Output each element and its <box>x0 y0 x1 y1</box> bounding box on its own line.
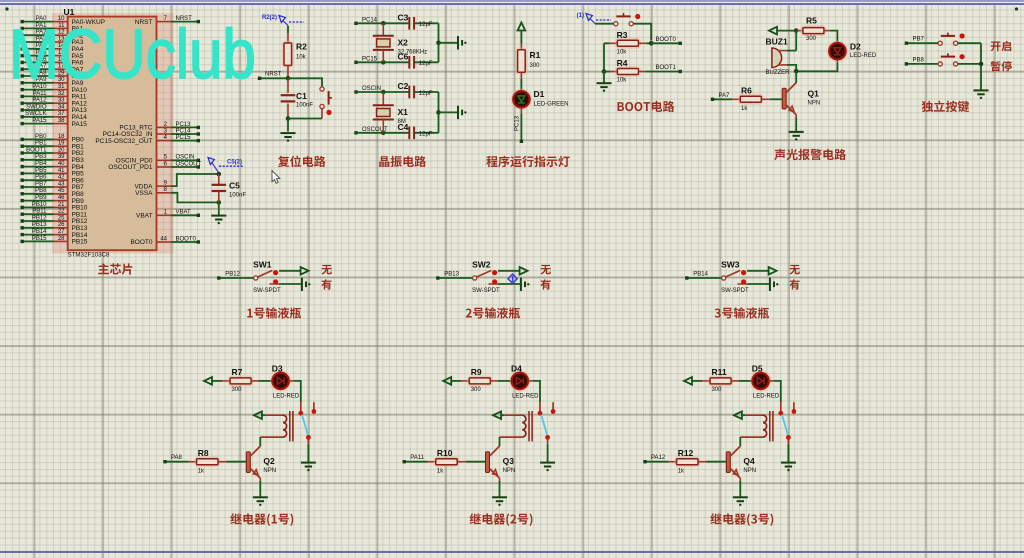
svg-text:LED-GREEN: LED-GREEN <box>534 102 569 108</box>
svg-text:LED-RED: LED-RED <box>273 393 300 399</box>
svg-text:12pF: 12pF <box>419 132 433 138</box>
svg-text:25: 25 <box>58 215 65 221</box>
svg-text:BOOT1: BOOT1 <box>656 65 677 71</box>
svg-text:SWCLK: SWCLK <box>25 111 46 117</box>
svg-text:10k: 10k <box>617 50 628 56</box>
svg-text:44: 44 <box>160 236 167 242</box>
svg-text:R12: R12 <box>678 448 694 458</box>
svg-text:300: 300 <box>530 63 541 69</box>
svg-text:PA12: PA12 <box>651 455 666 461</box>
svg-text:LED-RED: LED-RED <box>512 393 539 399</box>
svg-text:1k: 1k <box>198 469 205 475</box>
svg-text:PB0: PB0 <box>35 134 47 140</box>
svg-text:45: 45 <box>58 188 65 194</box>
svg-text:R10: R10 <box>437 448 453 458</box>
svg-text:37: 37 <box>58 111 65 117</box>
svg-text:300: 300 <box>806 36 817 42</box>
svg-text:38: 38 <box>58 118 65 124</box>
svg-text:PA11: PA11 <box>410 455 424 461</box>
svg-text:VBAT: VBAT <box>136 213 153 220</box>
svg-text:OSCOUT: OSCOUT <box>176 161 202 167</box>
svg-text:300: 300 <box>232 387 243 393</box>
svg-text:PC14: PC14 <box>362 17 378 23</box>
svg-text:PB10: PB10 <box>32 202 47 208</box>
svg-text:PB1: PB1 <box>35 141 47 147</box>
svg-text:10k: 10k <box>296 55 307 61</box>
svg-text:R2(2): R2(2) <box>262 15 277 21</box>
svg-text:20: 20 <box>58 147 65 153</box>
svg-text:1k: 1k <box>678 469 685 475</box>
svg-text:OSCIN: OSCIN <box>176 155 195 161</box>
svg-text:PB7: PB7 <box>913 37 925 43</box>
svg-text:R11: R11 <box>712 367 727 377</box>
svg-text:PB5: PB5 <box>35 168 47 174</box>
svg-text:OSCIN: OSCIN <box>362 86 381 92</box>
svg-text:42: 42 <box>58 175 65 181</box>
svg-text:PC13: PC13 <box>176 122 192 128</box>
svg-text:C2: C2 <box>398 81 409 91</box>
svg-text:PA7: PA7 <box>719 93 731 99</box>
svg-text:PA15: PA15 <box>72 121 88 128</box>
svg-text:PC14: PC14 <box>176 128 192 134</box>
svg-text:C1: C1 <box>296 91 307 101</box>
svg-text:PB11: PB11 <box>32 209 47 215</box>
svg-text:SW-SPDT: SW-SPDT <box>253 288 281 294</box>
svg-text:43: 43 <box>58 181 65 187</box>
svg-text:NPN: NPN <box>503 468 516 474</box>
svg-text:BUZ1: BUZ1 <box>766 37 788 47</box>
svg-text:10k: 10k <box>617 78 628 84</box>
svg-text:26: 26 <box>58 222 65 228</box>
svg-text:PB9: PB9 <box>35 195 47 201</box>
svg-text:39: 39 <box>58 154 65 160</box>
svg-text:C4: C4 <box>398 122 409 132</box>
svg-text:C3: C3 <box>398 12 409 22</box>
svg-text:PC15-OSC32_OUT: PC15-OSC32_OUT <box>95 138 152 145</box>
svg-text:R1: R1 <box>530 50 541 60</box>
svg-text:34: 34 <box>58 104 65 110</box>
svg-text:Q4: Q4 <box>743 456 755 466</box>
svg-text:MCUclub: MCUclub <box>9 15 256 93</box>
svg-text:SW1: SW1 <box>253 260 272 270</box>
svg-text:PC15: PC15 <box>362 56 378 62</box>
svg-text:D5: D5 <box>752 363 763 373</box>
svg-text:X2: X2 <box>398 37 409 47</box>
svg-text:PB7: PB7 <box>35 181 47 187</box>
svg-text:SW3: SW3 <box>721 260 740 270</box>
svg-text:PB3: PB3 <box>35 154 47 160</box>
svg-text:SW-SPDT: SW-SPDT <box>472 288 500 294</box>
svg-text:18: 18 <box>58 134 65 140</box>
svg-text:19: 19 <box>58 141 65 147</box>
svg-text:BOOT0: BOOT0 <box>656 37 677 43</box>
svg-text:12pF: 12pF <box>419 61 433 67</box>
svg-text:PB12: PB12 <box>225 272 240 278</box>
svg-text:PB4: PB4 <box>35 161 47 167</box>
svg-text:R4: R4 <box>617 58 628 68</box>
svg-text:R6: R6 <box>741 86 752 96</box>
svg-text:1k: 1k <box>437 469 444 475</box>
svg-text:PB13: PB13 <box>444 272 459 278</box>
svg-text:Q1: Q1 <box>808 89 820 99</box>
svg-text:12pF: 12pF <box>419 91 433 97</box>
svg-text:PB15: PB15 <box>32 236 47 242</box>
svg-text:100nF: 100nF <box>229 193 246 199</box>
svg-text:28: 28 <box>58 236 65 242</box>
svg-text:LED-RED: LED-RED <box>753 393 780 399</box>
svg-text:D2: D2 <box>850 42 861 52</box>
svg-text:NPN: NPN <box>743 468 756 474</box>
svg-text:LED-RED: LED-RED <box>850 53 877 59</box>
svg-text:D3: D3 <box>272 363 283 373</box>
svg-text:33: 33 <box>58 98 65 104</box>
svg-text:12pF: 12pF <box>419 22 433 28</box>
svg-text:STM32F103C8: STM32F103C8 <box>68 252 111 259</box>
svg-text:C5(2): C5(2) <box>227 159 242 165</box>
svg-text:PA12: PA12 <box>32 98 47 104</box>
svg-text:SW2: SW2 <box>472 260 491 270</box>
svg-text:46: 46 <box>58 195 65 201</box>
svg-text:1k: 1k <box>741 106 748 112</box>
svg-text:VBAT: VBAT <box>176 210 192 216</box>
svg-text:27: 27 <box>58 229 65 235</box>
svg-text:22: 22 <box>58 209 65 215</box>
svg-text:R5: R5 <box>806 16 817 26</box>
svg-text:BOOT1: BOOT1 <box>26 147 47 153</box>
svg-text:D4: D4 <box>511 363 522 373</box>
svg-text:PB13: PB13 <box>32 222 47 228</box>
svg-text:PB14: PB14 <box>32 229 47 235</box>
svg-text:PA8: PA8 <box>171 455 183 461</box>
svg-text:PB14: PB14 <box>693 272 708 278</box>
svg-text:C6: C6 <box>398 51 409 61</box>
svg-text:21: 21 <box>58 202 65 208</box>
svg-text:PB6: PB6 <box>35 175 47 181</box>
svg-text:R2: R2 <box>296 42 307 52</box>
svg-text:300: 300 <box>471 387 482 393</box>
svg-text:PB8: PB8 <box>913 57 925 63</box>
svg-text:(1): (1) <box>577 13 584 19</box>
svg-text:X1: X1 <box>398 107 409 117</box>
svg-text:NPN: NPN <box>263 468 276 474</box>
svg-text:R8: R8 <box>198 448 209 458</box>
svg-text:100nF: 100nF <box>296 103 313 109</box>
svg-text:BUZZER: BUZZER <box>766 70 791 76</box>
svg-text:R3: R3 <box>617 30 628 40</box>
svg-text:PC15: PC15 <box>176 135 192 141</box>
svg-text:D1: D1 <box>534 89 545 99</box>
svg-text:PB12: PB12 <box>32 215 47 221</box>
svg-text:40: 40 <box>58 161 65 167</box>
svg-text:OSCOUT_PD1: OSCOUT_PD1 <box>108 164 152 171</box>
svg-text:41: 41 <box>58 168 65 174</box>
svg-text:BOOT0: BOOT0 <box>176 236 197 242</box>
svg-text:Q2: Q2 <box>263 456 275 466</box>
svg-text:PC13: PC13 <box>515 115 521 131</box>
svg-text:SW-SPDT: SW-SPDT <box>721 288 749 294</box>
svg-text:PA15: PA15 <box>32 118 47 124</box>
svg-text:VSSA: VSSA <box>135 190 153 197</box>
svg-text:NPN: NPN <box>808 101 821 107</box>
svg-text:Q3: Q3 <box>503 456 515 466</box>
svg-text:R7: R7 <box>232 367 243 377</box>
svg-text:PB15: PB15 <box>72 239 88 246</box>
svg-text:R9: R9 <box>471 367 482 377</box>
svg-text:BOOT0: BOOT0 <box>130 239 152 246</box>
svg-text:C5: C5 <box>229 181 240 191</box>
svg-text:300: 300 <box>712 387 723 393</box>
svg-text:NRST: NRST <box>265 71 282 77</box>
svg-text:SWDIO: SWDIO <box>26 104 47 110</box>
svg-text:PB8: PB8 <box>35 188 47 194</box>
